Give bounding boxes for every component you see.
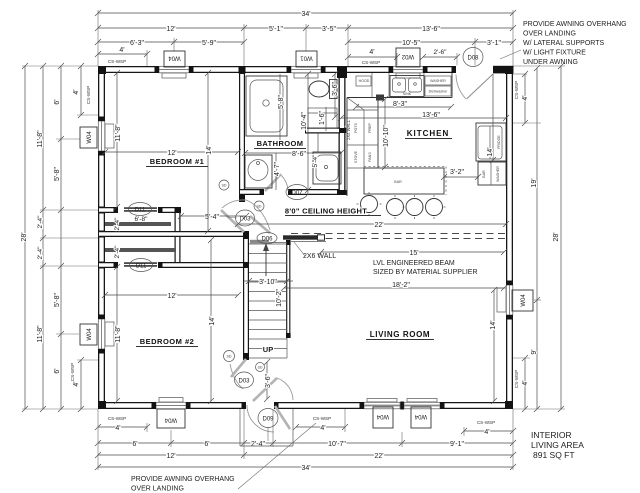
label D03 bedroom1 [236,210,255,226]
svg-text:6'-3": 6'-3" [130,40,144,47]
svg-text:INTERIOR: INTERIOR [531,430,572,440]
dim 4'-7" (rotated) [274,153,281,190]
right dim col: 4' CS-WSP top, 4' bottom [514,71,529,412]
svg-text:28': 28' [553,232,560,241]
label D11 bottom [130,259,153,272]
svg-text:10'-5": 10'-5" [402,40,420,47]
label D11 top [129,203,152,216]
svg-text:5'-8": 5'-8" [54,293,61,307]
svg-text:W04: W04 [164,417,177,423]
svg-text:5'-8": 5'-8" [278,95,285,109]
svg-text:14': 14' [206,145,213,154]
svg-text:OVER LANDING: OVER LANDING [131,486,184,493]
svg-text:POTS: POTS [354,123,358,133]
svg-text:6': 6' [54,368,61,373]
dim 3'-2" [441,169,481,180]
window W01 top wall [287,65,326,78]
2X6 WALL label [294,242,305,256]
svg-text:6'-8": 6'-8" [135,216,149,223]
svg-text:2'-4": 2'-4" [251,441,265,448]
svg-text:SINK: SINK [403,92,412,96]
bottom CS-WSP 4' dims [95,416,516,436]
dim 12' bedroom1 [102,149,241,157]
stair treads [249,244,287,358]
svg-text:UNDER AWNING: UNDER AWNING [523,59,578,66]
svg-text:KITCHEN: KITCHEN [407,129,450,138]
svg-text:W/ LIGHT FIXTURE: W/ LIGHT FIXTURE [523,50,586,57]
closet rod top [105,222,171,226]
svg-text:D09: D09 [262,417,274,423]
room label KITCHEN [405,129,452,139]
svg-text:11'-8": 11'-8" [37,325,44,343]
wall bath closet jog (y130.5) [305,128,340,134]
svg-text:BEDROOM #1: BEDROOM #1 [150,157,205,166]
wall junction blocks on left wall [98,207,105,269]
svg-text:BAR: BAR [482,170,486,178]
closet rod bottom [105,248,176,252]
2x6 wall stub at stair top [283,235,326,242]
window W04 top wall [155,65,194,78]
top dim row3: 6'-3", 5'-4", 10'-5", 3'-1" [95,39,516,47]
door D08 swing [456,74,493,99]
svg-text:6': 6' [54,99,61,104]
svg-text:22': 22' [374,222,383,229]
svg-text:1'-6": 1'-6" [319,111,326,125]
wall bedroom2 north (y265) [98,262,246,268]
svg-text:HOOD: HOOD [359,79,370,83]
wall stair east 2x6 (x289) [286,240,291,338]
SD bedroom2 [224,351,235,362]
svg-text:12': 12' [166,453,175,460]
svg-text:OVER LANDING: OVER LANDING [523,31,576,38]
SD hall top [254,201,264,211]
hall dim 5'-4" [178,213,249,221]
vanity sink [245,155,272,188]
svg-text:Dishwasher: Dishwasher [429,90,449,94]
svg-text:CS-WSP: CS-WSP [477,420,495,425]
label D08 [463,48,483,67]
kitchen sink [390,76,424,97]
room label BEDROOM #2 [136,337,198,347]
label D06 [257,233,277,244]
svg-text:STOVE: STOVE [354,150,358,163]
svg-text:3'-6": 3'-6" [265,374,272,388]
left extension lines [22,66,98,409]
wall junction blocks on top wall [239,66,348,74]
exterior wall [102,70,510,406]
wall closet middle (y234) [98,231,249,237]
svg-text:13'-6": 13'-6" [422,112,440,119]
svg-text:D03: D03 [239,217,251,223]
dim 14' living (rotated) [490,287,497,404]
svg-text:UP: UP [263,345,273,354]
svg-text:WASHER: WASHER [496,166,500,182]
svg-text:8'0" CEILING HEIGHT: 8'0" CEILING HEIGHT [285,207,367,216]
svg-text:W01: W01 [300,55,313,61]
bottom dim row: 6',6',2'-4",10'-7",9'-1" [95,440,516,448]
svg-text:5'-8": 5'-8" [54,167,61,181]
corner blocks [98,66,513,409]
svg-text:SIZED BY MATERIAL SUPPLIER: SIZED BY MATERIAL SUPPLIER [373,269,478,276]
svg-text:4': 4' [320,425,325,432]
svg-text:13'-6": 13'-6" [422,26,440,33]
svg-text:BEDROOM #2: BEDROOM #2 [140,337,195,346]
dim 13'-6" kitchen [338,112,509,121]
window W02 top wall [389,65,428,78]
label W04 left bottom (rotated) [80,324,97,345]
leader from top note to D08 [500,50,521,59]
svg-text:CS-WSP: CS-WSP [362,60,380,65]
note bottom-left: awning note [131,476,235,493]
left dim col: 4' CS-WSP top and bottom [70,63,91,412]
svg-text:4': 4' [119,47,124,54]
dim 10'-4" (rotated) [301,71,311,193]
svg-text:SD: SD [257,205,262,209]
svg-text:34': 34' [301,11,310,18]
svg-text:18'-2": 18'-2" [392,282,410,289]
svg-text:CS-WSP: CS-WSP [514,81,519,99]
svg-text:19': 19' [531,178,538,187]
dim 5'-4" shower (rotated) [312,133,319,167]
wall bedroom1 south (y210) [98,207,181,213]
door D11 opening bottom closet [114,261,163,268]
stair up arrow [263,243,269,276]
svg-text:SD: SD [258,366,263,370]
dim 8'-6" [242,150,344,158]
svg-text:CS-WSP: CS-WSP [313,416,331,421]
svg-text:W04: W04 [87,328,93,341]
label W02 [396,48,420,67]
dim 14' bedroom1 (rotated) [205,70,213,234]
tub [246,76,287,136]
fridge [476,123,506,161]
hall dim 3'-6" (rotated, at bedroom2 door) [264,359,272,402]
svg-text:PROVIDE AWNING OVERHANG: PROVIDE AWNING OVERHANG [523,21,627,28]
dim 18'-2" [281,282,507,291]
dim 14' bedroom2 (rotated) [208,237,216,404]
svg-text:9': 9' [531,349,538,354]
svg-text:2'-4": 2'-4" [114,245,121,259]
svg-text:34': 34' [301,465,310,472]
svg-text:3'-6": 3'-6" [332,82,339,96]
room label LIVING ROOM [366,330,434,340]
window W04 right wall [497,281,514,320]
dim 3'-6" toilet (rotated) [332,71,339,120]
wall stair west (x246) [243,231,249,360]
wall bathroom/kitchen (x342) [337,73,347,195]
svg-text:11'-8": 11'-8" [115,124,122,142]
label W04 bottom left [157,409,185,428]
svg-text:W04: W04 [168,55,181,61]
left dim col: 6', 5'-8", 5'-8", 6' [54,63,64,412]
svg-text:CS-WSP: CS-WSP [108,59,126,64]
top dim row2: 12', 5'-1", 3'-5", 13'-6" [95,25,516,33]
svg-text:4': 4' [522,380,529,385]
svg-text:W04: W04 [376,413,389,419]
svg-text:PANS: PANS [368,152,372,162]
svg-text:2X6 WALL: 2X6 WALL [303,253,336,260]
dim 8'-3" [353,101,454,110]
stair dim 3'-10" [244,278,293,286]
svg-text:5'-4": 5'-4" [205,214,219,221]
window W04 bottom wall left [152,398,191,410]
svg-text:D08: D08 [467,56,479,62]
window W04 left wall bottom [97,315,114,354]
svg-text:3'-1": 3'-1" [487,40,501,47]
dim 14' kitchen (rotated) [487,74,496,163]
svg-text:D06: D06 [261,237,273,243]
svg-text:22': 22' [374,453,383,460]
SD hall bottom [256,363,265,372]
svg-text:W/ LATERAL SUPPORTS: W/ LATERAL SUPPORTS [523,40,604,47]
label W04 left top (rotated) [80,127,97,148]
svg-text:D03: D03 [238,379,250,385]
svg-text:CS-WSP: CS-WSP [70,363,75,381]
window W04 left wall top [97,117,114,156]
svg-text:CS-WSP: CS-WSP [86,86,91,104]
svg-text:SD: SD [227,355,232,359]
svg-text:LIVING AREA: LIVING AREA [531,440,584,450]
dim 22' [235,221,509,229]
label W04 top [164,51,185,67]
left dim 28' [21,63,28,412]
svg-text:14': 14' [490,320,497,329]
svg-text:PREP: PREP [368,123,372,133]
svg-text:PROVIDE AWNING OVERHANG: PROVIDE AWNING OVERHANG [131,476,235,483]
svg-text:W04: W04 [521,294,527,307]
label D09 [258,409,278,442]
svg-text:4': 4' [484,429,489,436]
window W04 pair bottom wall [360,399,445,410]
door D03 bedroom2 swing [230,359,293,401]
label D03 bedroom2 [235,372,254,388]
kitchen left counter [347,95,384,197]
svg-text:9'-1": 9'-1" [450,441,464,448]
landing at D09 [240,409,293,446]
right extension lines [513,66,565,409]
svg-text:BAR: BAR [394,180,402,184]
svg-text:3'-2": 3'-2" [450,169,464,176]
svg-text:10'-4": 10'-4" [301,112,308,130]
dim 11'-8" bedroom2 (rotated) [114,264,122,404]
svg-text:6': 6' [204,441,209,448]
svg-text:WASHER: WASHER [430,79,446,83]
SD bedroom1 [219,180,229,190]
svg-text:BATHROOM: BATHROOM [257,139,304,148]
door D09 swing [247,405,290,432]
svg-text:W02: W02 [401,53,414,59]
label W01 [296,51,317,67]
svg-text:3'-5": 3'-5" [322,26,336,33]
svg-text:4': 4' [369,49,374,56]
dim 12' bedroom2 [102,292,241,300]
svg-text:12': 12' [167,150,176,157]
top dim row4: 4' CS-WSP left, 4' CS-WSP mid, 2'-6" [95,47,460,65]
svg-text:14': 14' [209,316,216,325]
svg-text:10'-10": 10'-10" [383,125,390,147]
svg-text:15': 15' [409,250,418,257]
door D06 leaf [250,240,287,244]
bar stools [357,192,446,219]
dim 15' [318,249,507,257]
dim 1'-6" (rotated) [319,107,326,131]
svg-text:14': 14' [487,147,494,156]
kitchen top counter band [347,73,452,98]
svg-text:5'-9": 5'-9" [202,40,216,47]
door D09 opening bottom wall [242,401,279,409]
dim 11'-8" bedroom1 (rotated) [114,70,122,210]
svg-text:2'-4": 2'-4" [37,246,44,260]
dim 5'-8" tub (rotated) [278,74,285,143]
wall bedroom1/bathroom (vertical x242) [239,73,245,202]
note top-right: awning note [523,21,627,66]
svg-text:10'-2": 10'-2" [276,289,283,307]
right dim 28' [553,63,564,412]
svg-text:FRIDGE: FRIDGE [497,135,501,149]
svg-text:3'-10": 3'-10" [259,279,277,286]
LVL beam dashed lines [291,234,507,239]
svg-text:28': 28' [21,232,28,241]
svg-text:891 SQ FT: 891 SQ FT [533,450,575,460]
toilet [309,80,337,99]
svg-text:10'-7": 10'-7" [328,441,346,448]
door D03 bedroom1 swing [221,200,270,233]
LVL beam note [373,260,478,276]
dishwasher [425,76,451,96]
svg-text:D11: D11 [135,208,146,214]
label W04 bottom pair [373,407,393,428]
svg-text:8'-6": 8'-6" [292,151,306,158]
note: interior living area [531,430,584,460]
door D11 opening top closet [114,206,163,213]
svg-text:2'-6": 2'-6" [434,49,448,56]
svg-text:11'-8": 11'-8" [37,130,44,148]
dim 10'-10" (rotated) [382,96,390,170]
svg-text:D11: D11 [136,264,147,270]
svg-text:4': 4' [522,95,529,100]
svg-text:W04: W04 [414,413,427,419]
wall bathroom south (y192) [239,189,345,195]
svg-text:4'-7": 4'-7" [274,162,281,176]
svg-text:4': 4' [73,89,80,94]
label D07 [286,185,308,200]
bottom extension lines [98,409,513,470]
svg-text:5'-1": 5'-1" [269,26,283,33]
door D08 opening top wall [452,65,514,73]
top extension lines [98,10,513,66]
left dim col: 11'-8", 2'-4", 2'-4", 11'-8" [37,63,46,412]
svg-text:CS-WSP: CS-WSP [108,416,126,421]
svg-text:LVL ENGINEERED BEAM: LVL ENGINEERED BEAM [373,260,455,267]
door D07 swing [265,174,288,191]
svg-text:D07: D07 [291,191,303,197]
shower [313,152,341,184]
svg-text:W04: W04 [87,131,93,144]
top dim 34' [95,10,516,18]
svg-text:5'-4": 5'-4" [312,154,319,168]
svg-text:4': 4' [115,425,120,432]
right dim col: 19', 9' [531,65,540,412]
leader from bottom note to landing [238,423,316,489]
8'0" ceiling height label [285,207,381,216]
svg-text:8'-3": 8'-3" [393,101,407,108]
svg-text:12': 12' [166,26,175,33]
bottom dim 34' [95,464,516,472]
svg-text:12': 12' [167,293,176,300]
room label BATHROOM [254,139,306,149]
svg-text:SD: SD [222,184,227,188]
svg-text:2'-4": 2'-4" [114,217,121,231]
kitchen right base cabinets [478,162,506,185]
svg-text:2'-4": 2'-4" [37,215,44,229]
svg-text:LIVING ROOM: LIVING ROOM [370,330,430,339]
bottom dim row: 12', 22' [95,452,516,460]
svg-text:6': 6' [132,441,137,448]
room label BEDROOM #1 [146,157,208,167]
svg-text:11'-8": 11'-8" [115,325,122,343]
svg-text:CS-WSP: CS-WSP [514,370,519,388]
label W04 right wall (rotated) [512,290,533,311]
kitchen island [364,167,446,195]
wall closet divider vertical (x177.5) [175,207,181,268]
linen closet [308,108,337,128]
